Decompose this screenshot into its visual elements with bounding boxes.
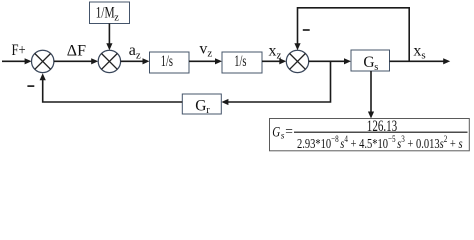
wire tap node to bottom feedback into block Gr (221, 61, 330, 105)
svg-text:2.93*10−8 s4 + 4.5*10−5 s3 + 0: 2.93*10−8 s4 + 4.5*10−5 s3 + 0.013s2 + s (297, 135, 463, 152)
wire I2 to summing junction S3 (262, 58, 286, 64)
wire S2 to integrator I1 (121, 58, 150, 64)
wire Gr to S1 lower input (40, 73, 183, 102)
formula box for Gs transfer function (270, 118, 470, 152)
svg-text:1/s: 1/s (234, 53, 246, 70)
svg-text:126.13: 126.13 (367, 118, 398, 135)
minus sign at S1 lower input (27, 85, 34, 87)
wire Gs to output xs (390, 58, 451, 64)
svg-text:1/s: 1/s (161, 53, 173, 70)
minus sign at S3 top input (303, 29, 310, 31)
block integrator I1 1/s (150, 52, 190, 73)
summing junction S2 (98, 50, 120, 72)
wire S1 to summing junction S2 (54, 58, 98, 64)
wire I1 to integrator I2 (189, 58, 222, 64)
svg-text:G: G (363, 54, 374, 71)
svg-text:F+: F+ (12, 42, 26, 59)
summing junction S1 (32, 50, 54, 72)
summing junction S3 (286, 50, 308, 72)
fraction bar (294, 131, 468, 133)
block Gr (182, 94, 221, 116)
svg-text:s: s (281, 132, 285, 142)
wire 1/Mz to S2 (106, 24, 112, 51)
svg-text:=: = (285, 124, 293, 139)
wire Gs down to formula box (368, 71, 374, 119)
svg-text:s: s (374, 62, 378, 73)
svg-text:r: r (206, 105, 210, 116)
block Gs (351, 50, 390, 73)
wire top feedback from output node down into S3 (294, 8, 409, 62)
wire S3 to block Gs (309, 58, 351, 64)
svg-text:G: G (195, 98, 206, 115)
block 1/Mz (90, 2, 130, 24)
svg-text:1/M: 1/M (96, 5, 115, 22)
block integrator I2 1/s (222, 52, 262, 73)
svg-text:z: z (114, 13, 119, 24)
wire input F to summing junction S1 (2, 58, 32, 64)
svg-text:G: G (272, 125, 280, 141)
svg-text:ΔF: ΔF (67, 42, 86, 59)
